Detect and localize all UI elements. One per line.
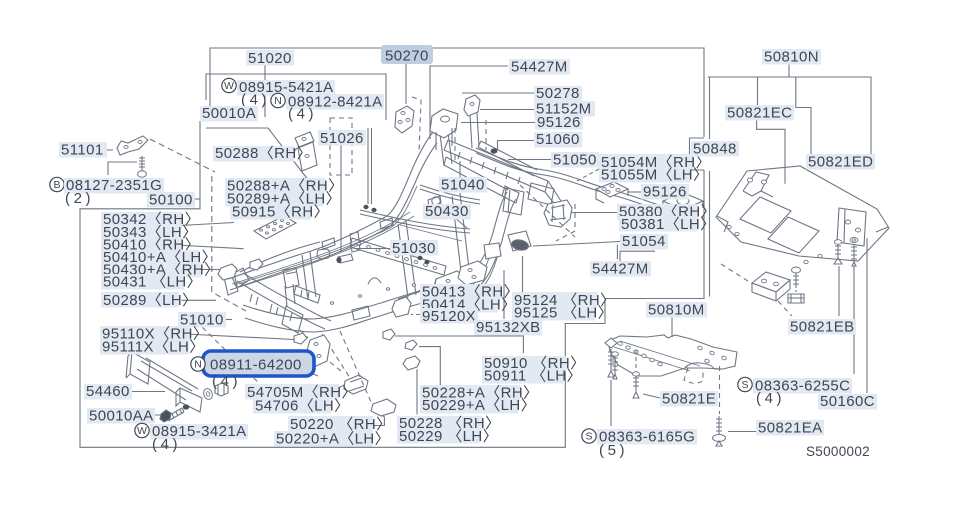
leader 95120X (411, 314, 420, 316)
label 50278 (534, 86, 582, 102)
bar 51060 (478, 141, 537, 176)
kickup inner lines (470, 246, 499, 292)
leader 50821EB (838, 266, 840, 316)
callout 50910 box (395, 336, 523, 353)
svg-text:S: S (741, 379, 748, 391)
front sill hatches (458, 152, 520, 184)
frame bolts small pair2 (417, 256, 422, 260)
rear corner cap (282, 306, 303, 333)
label 50229+A(LH) (420, 398, 518, 414)
leader 51050 (508, 159, 551, 161)
symbol circled S for 08363-6255C (738, 377, 752, 391)
leader 54427M top (430, 66, 508, 139)
symbol circled N for 08912-8421A (271, 93, 285, 107)
strap arc (368, 278, 381, 284)
rail tabs (322, 196, 441, 249)
block 50821EB top (752, 272, 790, 292)
clamp dot 51060 (491, 148, 498, 153)
clip 95110X part (294, 333, 307, 344)
leader 50810M (671, 316, 673, 338)
label 50430+A(RH) (101, 262, 201, 278)
callout box main assembly top/right edge (80, 48, 704, 447)
leader 51101 dash (96, 149, 113, 151)
svg-text:50229 〈LH〉: 50229 〈LH〉 (399, 428, 498, 445)
dashed around 50380 (520, 185, 575, 241)
bracket 50413 foot (434, 279, 436, 290)
label 08363-6165G (597, 429, 697, 445)
leader 50100 dash (191, 198, 200, 200)
leader 50342 pair (180, 223, 234, 226)
leader 51060 (498, 141, 536, 151)
screw 50810M b (633, 376, 639, 398)
svg-text:51060: 51060 (536, 131, 580, 148)
block 50821EB side (776, 280, 790, 301)
svg-text:(2): (2) (65, 190, 94, 207)
leader 54705M (333, 386, 342, 391)
label 95111X(LH) (100, 339, 189, 355)
label 54427M second (590, 261, 651, 277)
bracket for 50848 label (690, 138, 705, 170)
svg-text:(4): (4) (756, 390, 785, 407)
label 08915-5421A (237, 80, 335, 96)
label 51030 (390, 240, 438, 256)
label 50821EA (756, 420, 824, 436)
svg-text:54706〈LH〉: 54706〈LH〉 (255, 398, 350, 415)
hook 50289 part (317, 249, 330, 259)
leader 50380 (570, 212, 617, 214)
clip 50410 part (250, 259, 263, 270)
label 51054M(RH) (599, 154, 693, 170)
label 95126 top (535, 114, 583, 130)
elbow 08127 to bolt (108, 162, 137, 175)
clip nut (788, 294, 804, 303)
leader 50413 pair (398, 292, 420, 300)
link 51054 to 54427M (616, 245, 618, 259)
cylinder part (338, 254, 353, 263)
label 54706(LH) (253, 398, 331, 414)
leader 08363-6255C (853, 266, 855, 374)
stabilizer bar 51040 (476, 148, 676, 210)
leader 50821E (643, 394, 660, 398)
far rail rear cap (224, 273, 238, 295)
leader 54460 (132, 391, 165, 393)
leader 50278 (462, 92, 534, 94)
plate 95126 foot (596, 189, 628, 203)
bracket 95132XB part (458, 261, 487, 285)
leader 95132XB (503, 270, 505, 319)
label 50228 (RH) (397, 416, 482, 432)
leader W/N box to frame bolts (368, 128, 372, 204)
svg-text:50431 〈LH〉: 50431 〈LH〉 (103, 274, 202, 291)
clip 50430+A part (218, 264, 237, 280)
leader 51026 (340, 145, 342, 252)
leader 95126 top (461, 122, 535, 124)
clamp dot stab right (673, 210, 679, 215)
leader 50810N inner (796, 77, 811, 168)
label 51026 (318, 130, 366, 146)
symbol circled W for 08915-5421A (222, 78, 236, 92)
dashed box near 50270 part (412, 97, 421, 152)
label 50289+A(LH) (225, 191, 323, 207)
leader 50410 (175, 245, 244, 249)
svg-text:50289〈LH〉: 50289〈LH〉 (103, 292, 198, 309)
mid crossmember 51040 (444, 157, 508, 198)
svg-text:W: W (137, 425, 147, 437)
label 50381(LH) (619, 216, 697, 232)
label 08363-6255C (753, 378, 852, 394)
label 51060 (534, 132, 582, 148)
svg-text:50821E: 50821E (662, 391, 716, 408)
leader 50220 bracket (372, 411, 384, 426)
svg-text:(4): (4) (288, 106, 317, 123)
label 50821EC (725, 105, 794, 121)
label 95110X(RH) (100, 326, 191, 342)
label 50160C (818, 394, 877, 410)
leader 50270 (405, 64, 407, 104)
bolt near block (793, 273, 799, 288)
front posts 50278/95126 (440, 113, 479, 166)
label 50220 (RH) (288, 416, 373, 432)
clip 50228 part (403, 356, 420, 370)
svg-text:N: N (194, 359, 202, 371)
rail web lines (232, 212, 414, 288)
bolt for 51101 (139, 156, 145, 171)
symbol circled N for 08911-64200 (191, 357, 205, 371)
dashed leader from 51101 (150, 139, 215, 172)
label 50430 (423, 204, 471, 220)
bracket 54705M inner (349, 378, 364, 391)
bracket inner lines (436, 128, 452, 150)
screw D (851, 244, 857, 266)
dashed above pushpin (719, 366, 721, 414)
label 50410+A(LH) (101, 250, 199, 266)
label 50100 (147, 192, 195, 208)
svg-text:(5): (5) (599, 442, 628, 459)
label 95126 mid (641, 184, 689, 200)
label 50911 (LH) (482, 368, 565, 384)
label 50410(RH) (101, 237, 182, 253)
dashed box mid (330, 118, 352, 175)
svg-text:50229+A〈LH〉: 50229+A〈LH〉 (422, 397, 536, 414)
screw C pushpin (834, 244, 842, 264)
svg-text:95120X: 95120X (422, 308, 476, 325)
svg-text:W: W (224, 80, 234, 92)
label 50288(RH) (213, 146, 294, 162)
bolt 50010AA (166, 408, 184, 421)
svg-text:(4): (4) (152, 436, 181, 453)
svg-text:51050: 51050 (553, 152, 597, 169)
plate foot (663, 201, 703, 213)
svg-text:50821EC: 50821EC (727, 105, 792, 122)
leader 51020 (264, 64, 266, 117)
posts mid (283, 268, 299, 288)
skid plate 50848 (716, 166, 889, 261)
front corner post (503, 188, 524, 215)
clip 50228+A part (405, 340, 417, 350)
leader 50289 (181, 299, 216, 301)
label 51054 (620, 234, 668, 250)
svg-text:50915〈RH〉: 50915〈RH〉 (232, 204, 329, 221)
leader 6165G screw (610, 380, 612, 426)
svg-text:51040: 51040 (441, 177, 485, 194)
leader 50160C (866, 238, 868, 393)
label 50431 (LH) (101, 274, 184, 290)
svg-text:50010AA: 50010AA (89, 408, 154, 425)
label 51055M(LH) (599, 167, 690, 183)
label 50821ED (806, 154, 875, 170)
label 51101 (59, 142, 107, 158)
frame bolts small (363, 205, 368, 209)
bolt 50010AA head (160, 410, 171, 422)
label 95120X (420, 308, 478, 324)
leader 54427M second (620, 251, 655, 262)
svg-text:51020: 51020 (248, 50, 292, 67)
svg-text:54460: 54460 (86, 383, 130, 400)
svg-text:50810N: 50810N (764, 49, 819, 66)
label 51040 (439, 177, 487, 193)
bell bracket 50380 (544, 200, 572, 227)
blade bracket 51054/95124 (508, 231, 531, 251)
label 54460 (84, 384, 132, 400)
callout box 50810N (708, 77, 871, 297)
screw 50810M a (612, 356, 618, 379)
svg-text:54427M: 54427M (592, 261, 649, 278)
leader 95110X (186, 334, 294, 340)
label 08912-8421A (286, 94, 384, 110)
skid plate 50810M (608, 335, 737, 383)
svg-text:50810M: 50810M (648, 302, 705, 319)
svg-text:50160C: 50160C (820, 393, 875, 410)
leader 50430+A (198, 269, 220, 271)
highlighted part number 08911-64200 (203, 351, 314, 376)
leader 50288 diag (291, 148, 297, 155)
dashed drop x=212 (212, 176, 246, 311)
svg-text:50381〈LH〉: 50381〈LH〉 (621, 216, 716, 233)
leader 50821ED (869, 158, 871, 160)
hex nut 08911 (215, 383, 228, 396)
shackle bracket 95111X (305, 335, 330, 367)
svg-text:50911 〈LH〉: 50911 〈LH〉 (484, 368, 582, 385)
bracket 51152M part (464, 95, 480, 116)
rear crossmember tube (237, 281, 325, 329)
label 50288+A(RH) (225, 178, 325, 194)
frame near rail (243, 192, 507, 319)
dashed near shackle (300, 330, 342, 372)
label 50380(RH) (617, 204, 698, 220)
label 50810N (762, 49, 821, 65)
label 95124 (RH) (512, 292, 597, 308)
svg-text:50821ED: 50821ED (808, 154, 873, 171)
leader 51054 (533, 242, 620, 247)
svg-text:50100: 50100 (149, 192, 193, 209)
bracket mid 50288 part (295, 132, 317, 171)
svg-text:50848: 50848 (693, 141, 737, 158)
bracket 50220 part (371, 399, 396, 416)
leader 51152M (480, 109, 534, 111)
symbol circled B for 08127-2351G (50, 177, 64, 191)
svg-text:50278: 50278 (536, 85, 580, 102)
leader 51010 (216, 319, 232, 321)
svg-text:95126: 95126 (643, 184, 687, 201)
label 54705M(RH) (245, 384, 339, 400)
leader 51054M pair (577, 169, 599, 181)
label 50910 (RH) (482, 356, 567, 372)
tube 50430 (360, 210, 470, 233)
label 51020 (246, 50, 294, 66)
label 95132XB (474, 320, 542, 336)
plate 51054M part (663, 193, 703, 210)
label 50821E (660, 391, 718, 407)
label 50414(LH) (420, 297, 498, 313)
svg-text:N: N (274, 95, 282, 107)
label 50413(RH) (420, 284, 501, 300)
symbol circled W for 08915-3421A (135, 423, 149, 437)
label 95125 (LH) (512, 305, 595, 321)
symbol circled S for 08363-6165G (582, 429, 596, 443)
svg-text:95111X〈LH〉: 95111X〈LH〉 (102, 339, 205, 356)
svg-text:50288〈RH〉: 50288〈RH〉 (215, 145, 312, 162)
svg-text:54427M: 54427M (511, 59, 568, 76)
label 51010 (178, 312, 226, 328)
leader 51040 (459, 161, 461, 177)
svg-text:51101: 51101 (61, 142, 104, 159)
svg-text:(4): (4) (212, 373, 241, 390)
svg-text:51026: 51026 (320, 130, 364, 147)
label 51050 (551, 152, 599, 168)
plate 50915 (254, 216, 296, 239)
leader 50821EA (728, 431, 756, 433)
svg-text:50430: 50430 (425, 203, 469, 220)
screw 6165G (608, 349, 614, 377)
leader 08911 nut (221, 386, 223, 393)
callout box fasteners W/N (206, 74, 386, 204)
svg-text:50010A: 50010A (202, 105, 256, 122)
label 08127-2351G (64, 178, 164, 194)
hex nut lines (215, 384, 228, 395)
label 50010A (200, 106, 258, 122)
svg-text:S: S (585, 431, 592, 443)
frame far rail (228, 132, 433, 279)
leader 50228 (416, 369, 418, 414)
label 50915(RH) (230, 204, 311, 220)
label 50821EB (788, 319, 856, 335)
bracket 95126/50278 part (430, 109, 458, 138)
label 50229 (LH) (397, 428, 480, 444)
leader 50010AA (144, 414, 161, 416)
dashed right assembly (721, 264, 796, 316)
svg-text:B: B (53, 179, 60, 191)
clip 50910 part (383, 329, 395, 340)
plate 95126 mid (596, 182, 628, 197)
crossmember 51030 ladder (350, 238, 446, 275)
bracket 50270 part (395, 106, 414, 133)
block 50821EB front (752, 283, 776, 301)
label 50289(LH) (101, 292, 179, 308)
label 50010AA (87, 408, 155, 424)
bell bracket inner (550, 204, 566, 222)
lateral link 54460 (126, 352, 202, 412)
highlight 50270 (381, 45, 433, 64)
cup bracket 51054 (484, 243, 501, 259)
label 08915-3421A (150, 424, 248, 440)
svg-text:51055M〈LH〉: 51055M〈LH〉 (601, 167, 708, 184)
svg-text:08911-64200: 08911-64200 (210, 357, 302, 374)
leader 50228+A (419, 347, 440, 385)
rear hatch ticks (250, 294, 292, 321)
leader 95126 mid (628, 191, 641, 193)
svg-text:95132XB: 95132XB (476, 319, 541, 336)
shackle bracket foot (308, 362, 318, 376)
svg-text:50821EB: 50821EB (790, 319, 855, 336)
dashed near front posts (455, 120, 486, 160)
label 50342(RH) (101, 212, 182, 228)
leader 50430 (455, 218, 467, 228)
svg-text:51054: 51054 (622, 233, 666, 250)
svg-text:95126: 95126 (537, 114, 581, 131)
label 50810M (646, 302, 707, 318)
label 54427M top (509, 59, 570, 75)
label 51152M (534, 101, 595, 117)
body mount bushing 95124 (dark) (511, 238, 530, 251)
label 50228+A(RH) (420, 385, 520, 401)
leader 50821EC down (757, 77, 759, 106)
leader 50810N (788, 63, 790, 78)
leader 95124 pair (522, 256, 524, 293)
crossmember braces (285, 284, 295, 306)
rear slot piece (294, 286, 320, 303)
clip nut inner (788, 294, 804, 303)
svg-text:50821EA: 50821EA (758, 420, 823, 437)
bracket 54705M part (344, 375, 368, 394)
push pin 50821EA (716, 416, 722, 434)
label 50220+A(LH) (274, 431, 372, 447)
dashed to 54705 via box (196, 321, 268, 392)
svg-text:51030: 51030 (392, 240, 436, 257)
leader 51030 (355, 248, 390, 250)
chassis frame drawing (228, 132, 516, 333)
push pin tip (716, 441, 722, 446)
dashed screw b (635, 350, 637, 372)
bracket 95120X part (392, 297, 411, 317)
leader 50821EC elbow (757, 119, 785, 184)
bracket 50413 part (432, 271, 470, 303)
bracket 51101 (117, 136, 148, 155)
svg-text:50220+A〈LH〉: 50220+A〈LH〉 (276, 431, 390, 448)
label 50343(LH) (101, 224, 179, 240)
svg-text:50270: 50270 (385, 48, 429, 65)
screw 6165G head (605, 338, 617, 348)
front crossmember (444, 140, 548, 192)
label 50848 (691, 141, 739, 157)
svg-text:S5000002: S5000002 (806, 444, 870, 459)
dashed to 50220 parts (322, 331, 371, 402)
